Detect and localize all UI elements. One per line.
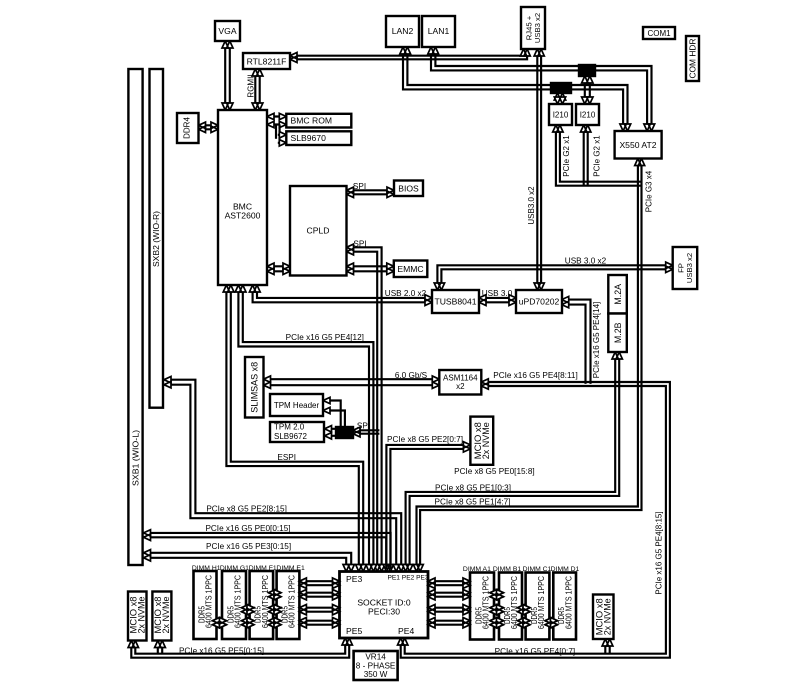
- svg-text:COM1: COM1: [647, 29, 671, 38]
- svg-text:PCIe x8 G5 PE1[0:3]: PCIe x8 G5 PE1[0:3]: [435, 483, 511, 492]
- svg-text:PCIe G2 x1: PCIe G2 x1: [592, 135, 601, 177]
- connector COM1: [643, 27, 675, 39]
- wire ESPI BMC-socket: [231, 285, 363, 572]
- wire USB 3.0 TUSB8041-uPD70202: [479, 297, 516, 299]
- svg-text:LAN2: LAN2: [392, 26, 414, 36]
- svg-text:SPI: SPI: [357, 422, 370, 431]
- slot M.2A: [608, 275, 627, 314]
- svg-text:VR14: VR14: [365, 653, 386, 662]
- wire CPLD-EMMC: [347, 265, 394, 267]
- wire conn1-I210 A: [561, 93, 563, 104]
- DIMM H1 DDR5: [194, 571, 217, 639]
- svg-text:PCIe x16 G5 PE4[8:15]: PCIe x16 G5 PE4[8:15]: [654, 511, 663, 594]
- svg-text:M.2A: M.2A: [613, 284, 623, 305]
- svg-text:X550 AT2: X550 AT2: [619, 140, 656, 150]
- svg-text:2x NVMe: 2x NVMe: [161, 596, 171, 633]
- svg-text:PE4: PE4: [398, 626, 414, 636]
- svg-text:EMMC: EMMC: [397, 264, 423, 274]
- wire socket-DIMM E1 channels: [299, 580, 339, 582]
- magnetics connector 1: [551, 83, 571, 93]
- svg-text:VGA: VGA: [218, 26, 236, 36]
- svg-text:PCIe x8 G5 PE2[0:7]: PCIe x8 G5 PE2[0:7]: [387, 435, 463, 444]
- svg-text:SXB2 (WIO-R): SXB2 (WIO-R): [151, 211, 161, 267]
- connector MCIO x8 2x NVMe 2: [152, 592, 171, 641]
- connector SLIMSAS x8: [245, 357, 264, 418]
- svg-text:SLB9672: SLB9672: [274, 432, 307, 441]
- svg-text:PCIe x8 G5 PE1[4:7]: PCIe x8 G5 PE1[4:7]: [434, 498, 510, 507]
- wire SPI CPLD-BIOS: [347, 189, 395, 191]
- svg-text:PCIe x16 G5 PE4[14]: PCIe x16 G5 PE4[14]: [592, 302, 601, 379]
- svg-text:PCIe x16 G5 PE0[0:15]: PCIe x16 G5 PE0[0:15]: [205, 524, 290, 533]
- svg-text:6400 MTS 1PPC: 6400 MTS 1PPC: [287, 575, 297, 628]
- svg-text:uPD70202: uPD70202: [519, 297, 560, 307]
- connector MCIO x8 2x NVMe right: [593, 595, 614, 640]
- wire VGA-BMC: [229, 41, 231, 110]
- wire PCIe x8 G5 PE2[8:15] SXB2-socket: [164, 380, 401, 572]
- svg-text:SLB9670: SLB9670: [291, 133, 327, 143]
- svg-text:SLIMSAS x8: SLIMSAS x8: [250, 362, 260, 413]
- svg-text:TPM Header: TPM Header: [274, 401, 320, 410]
- wire DIMM C1-D1 channels: [545, 620, 558, 622]
- BMC AST2600: [218, 110, 267, 285]
- svg-text:RTL8211F: RTL8211F: [247, 57, 287, 67]
- svg-text:TUSB8041: TUSB8041: [434, 297, 476, 307]
- riser slot SXB1 (WIO-L): [128, 69, 142, 565]
- TPM Header: [270, 394, 323, 416]
- svg-text:I210: I210: [580, 111, 596, 120]
- wire PCIe x16 G5 PE4[14] to uPD70202: [562, 305, 586, 384]
- VR14 8-PHASE 350 W: [354, 651, 398, 680]
- connector LAN1: [422, 16, 455, 47]
- svg-text:USB3.0 x2: USB3.0 x2: [527, 186, 536, 225]
- svg-text:PECI:30: PECI:30: [368, 606, 400, 616]
- wire USB3.0 x2 uPD70202-RJ45: [536, 49, 538, 290]
- wire PCIe x16 G5 PE4 socket-bottom-ASM1164: [405, 386, 666, 654]
- wire SPI CPLD-TPM riser to socket: [347, 247, 382, 571]
- DIMM E1 DDR5: [277, 571, 300, 639]
- svg-text:6.0 Gb/S: 6.0 Gb/S: [395, 371, 428, 380]
- controller ASM1164 x2: [439, 370, 481, 395]
- svg-text:PCIe x8 G5 PE2[8:15]: PCIe x8 G5 PE2[8:15]: [206, 505, 287, 514]
- svg-text:USB 2.0 x2: USB 2.0 x2: [385, 289, 427, 298]
- svg-text:BMC ROM: BMC ROM: [291, 116, 333, 126]
- NIC X550 AT2: [615, 131, 662, 159]
- svg-text:DIMM B1: DIMM B1: [493, 566, 522, 573]
- svg-text:DIMM F1: DIMM F1: [249, 565, 277, 572]
- EMMC: [394, 261, 428, 278]
- connector MCIO x8 2x NVMe mid: [470, 417, 493, 465]
- wire LAN1-X550: [435, 47, 651, 131]
- svg-text:DIMM D1: DIMM D1: [551, 566, 580, 573]
- svg-text:ESPI: ESPI: [277, 453, 296, 462]
- wire SPI stub to TPM connector: [353, 433, 379, 435]
- DIMM D1 DDR5: [553, 573, 576, 640]
- wire BMC-BMC ROM: [267, 115, 286, 117]
- NIC I210 A: [549, 104, 572, 125]
- svg-text:M.2B: M.2B: [613, 322, 623, 343]
- connector VGA: [215, 21, 240, 41]
- svg-text:AST2600: AST2600: [225, 211, 261, 221]
- svg-text:2x NVMe: 2x NVMe: [481, 422, 491, 459]
- svg-text:CPLD: CPLD: [307, 226, 330, 236]
- svg-text:PE1 PE2 PE3: PE1 PE2 PE3: [388, 575, 429, 582]
- wire LAN2-X550: [407, 47, 627, 131]
- DIMM A1 DDR5: [470, 573, 494, 640]
- connector COM HDR: [686, 36, 699, 81]
- wire BMC-SLB9670: [279, 125, 281, 139]
- wire DIMM F1-G1 channels: [242, 607, 255, 609]
- riser slot SXB2 (WIO-R): [150, 69, 164, 408]
- wire RTL8211F-RJ45: [290, 49, 524, 56]
- svg-text:x2: x2: [456, 382, 465, 391]
- svg-text:SPI: SPI: [353, 182, 366, 191]
- wire PCIe x8 G5 PE1[0:3] M.2B-socket: [410, 352, 620, 572]
- memory DDR4: [177, 113, 199, 143]
- svg-text:PE3: PE3: [346, 574, 362, 584]
- wire PCIe x16 G5 PE5[0:15] socket-MCIO1: [131, 638, 349, 658]
- BIOS: [394, 181, 423, 197]
- wire 6.0 Gb/S SLIMSAS-ASM1164: [264, 378, 440, 380]
- svg-text:RGMII: RGMII: [246, 74, 255, 97]
- connector LAN2: [386, 16, 419, 47]
- svg-text:USB3 x2: USB3 x2: [533, 13, 542, 43]
- svg-text:SPI: SPI: [353, 240, 366, 249]
- wire PCIe x16 G5 PE0[0:15] SXB1-socket: [144, 533, 391, 569]
- svg-text:PCIe x16 G5 PE4[8:11]: PCIe x16 G5 PE4[8:11]: [493, 371, 578, 380]
- svg-text:DIMM H1: DIMM H1: [192, 565, 221, 572]
- wire DIMM B1-C1 channels: [518, 607, 531, 609]
- TPM SLB9670: [286, 131, 351, 145]
- wire USB 2.0 x2 BMC-TUSB8041: [257, 285, 432, 298]
- svg-text:PE5: PE5: [346, 626, 362, 636]
- svg-text:TPM 2.0: TPM 2.0: [274, 423, 305, 432]
- svg-text:DIMM G1: DIMM G1: [220, 565, 249, 572]
- wire TPM connector-TPM Header: [323, 401, 341, 428]
- wire USB 3.0 x2 TUSB8041-FP USB3: [437, 265, 672, 290]
- wire PCIe G2 x1 I210 B: [587, 125, 589, 186]
- wire branch to MCIO2: [157, 641, 159, 654]
- TPM 2.0 SLB9672: [270, 422, 324, 442]
- svg-text:PCIe G2 x1: PCIe G2 x1: [562, 135, 571, 177]
- svg-text:PCIe x16 G5 PE5[0:15]: PCIe x16 G5 PE5[0:15]: [179, 647, 264, 656]
- svg-text:DIMM C1: DIMM C1: [523, 566, 552, 573]
- connector FP USB3 x2: [673, 247, 698, 289]
- wire PCIe G2 x1 I210 A: [560, 125, 642, 182]
- wire DDR4-BMC: [199, 124, 219, 126]
- svg-text:I210: I210: [553, 111, 569, 120]
- svg-text:BIOS: BIOS: [398, 184, 419, 194]
- SPI connector: [336, 427, 353, 438]
- BMC ROM: [286, 114, 351, 128]
- wire branch to MCIO3: [604, 639, 606, 654]
- svg-text:DDR4: DDR4: [182, 117, 191, 139]
- wire DIMM E1-F1 channels: [269, 592, 282, 594]
- svg-text:PCIe x16 G5 PE4[0:7]: PCIe x16 G5 PE4[0:7]: [495, 647, 576, 656]
- svg-text:2x NVMe: 2x NVMe: [602, 598, 612, 635]
- wire TPM connector-TPM 2.0: [325, 428, 337, 430]
- DIMM B1 DDR5: [499, 573, 522, 640]
- wire PCIe x16 G5 PE4[12] BMC-socket: [243, 285, 374, 572]
- CPLD: [290, 186, 347, 276]
- DIMM C1 DDR5: [526, 573, 550, 640]
- NIC I210 B: [576, 104, 599, 125]
- wire conn2-I210 B: [589, 76, 591, 104]
- DIMM F1 DDR5: [250, 571, 274, 639]
- connector RJ45 + USB3 x2: [521, 7, 545, 49]
- connector MCIO x8 2x NVMe 1: [128, 592, 147, 641]
- svg-text:PCIe x16 G5 PE3[0:15]: PCIe x16 G5 PE3[0:15]: [206, 542, 291, 551]
- svg-text:LAN1: LAN1: [428, 26, 450, 36]
- svg-text:PCIe G3 x4: PCIe G3 x4: [645, 170, 654, 212]
- CPU SOCKET ID:0 PECI:30: [340, 572, 429, 639]
- redriver uPD70202: [516, 290, 562, 313]
- svg-text:8 - PHASE: 8 - PHASE: [356, 661, 396, 670]
- DIMM G1 DDR5: [222, 571, 246, 639]
- wire RGMII RTL8211F-BMC: [259, 69, 261, 110]
- svg-text:COM HDR: COM HDR: [688, 39, 698, 79]
- svg-text:SXB1 (WIO-L): SXB1 (WIO-L): [131, 430, 141, 486]
- svg-text:PCIe x8 G5 PE0[15:8]: PCIe x8 G5 PE0[15:8]: [454, 467, 535, 476]
- svg-text:PCIe x16 G5 PE4[12]: PCIe x16 G5 PE4[12]: [286, 333, 364, 342]
- wire PCIe x16 G5 PE3[0:15] SXB1-socket: [144, 553, 352, 572]
- wire DIMM A1-B1 channels: [490, 592, 504, 594]
- wire socket-DIMM A1 channels: [428, 580, 470, 582]
- svg-text:USB 3.0: USB 3.0: [482, 289, 513, 298]
- wire PCIe x8 G5 PE2[0:7] socket-MCIO: [386, 445, 470, 572]
- svg-text:DIMM E1: DIMM E1: [276, 565, 305, 572]
- wire BMC-CPLD: [267, 265, 290, 267]
- svg-text:USB 3.0 x2: USB 3.0 x2: [565, 257, 607, 266]
- svg-text:DIMM A1: DIMM A1: [463, 566, 491, 573]
- svg-text:2x NVMe: 2x NVMe: [136, 596, 146, 633]
- svg-text:USB3 x2: USB3 x2: [685, 253, 694, 283]
- PHY RTL8211F: [243, 53, 290, 69]
- magnetics connector 2: [579, 65, 595, 76]
- hub TUSB8041: [432, 290, 479, 313]
- wire DIMM G1-H1 channels: [213, 620, 227, 622]
- slot M.2B: [608, 314, 627, 353]
- svg-text:350 W: 350 W: [364, 670, 388, 679]
- wire PCIe G3 x4 X550 / PE1[4:7] to socket: [420, 159, 641, 572]
- svg-text:6400 MTS 1PPC: 6400 MTS 1PPC: [563, 576, 573, 629]
